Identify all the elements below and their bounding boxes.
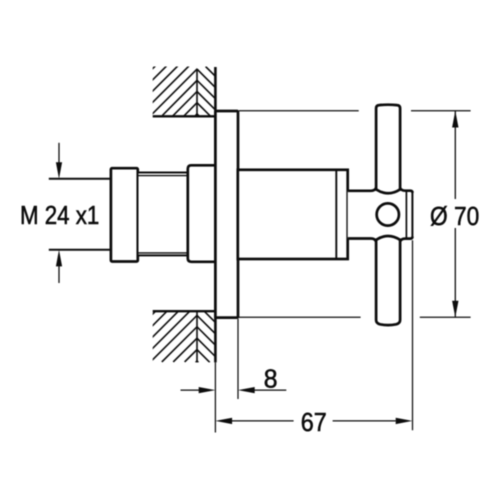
dimension 67 line left — [232, 420, 294, 422]
handle bar (vertical arm) — [376, 105, 400, 325]
union nut — [111, 168, 138, 261]
dimension D70 bottom extension line — [239, 316, 361, 318]
dimension 67 line right — [333, 420, 396, 422]
wall fold line top — [196, 69, 198, 117]
svg-text:Ø 70: Ø 70 — [430, 201, 479, 231]
wall hatch top block — [106, 66, 211, 116]
escutcheon plate — [215, 111, 238, 318]
hub bottom edge right and cap bottom — [400, 237, 412, 242]
thread root line top — [138, 175, 188, 177]
dimension 8 left line and arrow — [181, 389, 200, 391]
thread root line bottom — [138, 252, 188, 254]
dimension M24x1 top arrow — [58, 143, 60, 163]
supply thread stub bottom edge — [49, 249, 111, 251]
svg-text:67: 67 — [301, 407, 327, 437]
hub top intersection arc — [376, 190, 400, 194]
threaded section outline — [138, 173, 188, 256]
wall cut edge bottom — [153, 310, 216, 312]
dimension 8 right line and arrow — [255, 389, 287, 391]
body step line — [335, 170, 337, 259]
hub bottom intersection arc — [376, 236, 400, 240]
D70 bottom arrowhead — [452, 301, 458, 318]
wall face extension line for dims 8 and 67 — [214, 362, 216, 432]
supply thread stub top edge — [49, 178, 111, 180]
wall hatch bottom block — [105, 311, 197, 362]
wall hatch bottom block backslash strip — [197, 311, 215, 362]
hub bottom edge left — [348, 239, 376, 242]
svg-text:8: 8 — [264, 364, 278, 394]
dimension M24x1 bottom arrow — [58, 266, 60, 284]
wall cut edge top — [153, 115, 216, 117]
wall fold line bottom — [196, 311, 198, 362]
D70 top arrowhead — [452, 111, 458, 128]
dimension D70 line — [454, 111, 456, 199]
connector block at wall — [188, 165, 216, 261]
handle screw circle — [377, 203, 399, 225]
handle hub fill — [348, 191, 413, 239]
dimension D70 top extension line — [239, 110, 359, 112]
hub top edge left — [348, 188, 376, 191]
wall hatch top block backslash strip — [197, 67, 215, 117]
cap right edge — [411, 192, 413, 238]
wall face line — [214, 67, 217, 362]
hub top edge right and cap top — [400, 188, 412, 193]
valve body — [238, 170, 348, 259]
plate edge extension line for dim 8 — [237, 319, 239, 399]
svg-text:M 24 x1: M 24 x1 — [20, 200, 99, 230]
cap inner edge — [405, 191, 407, 239]
cap edge extension line for dim 67 — [412, 240, 414, 430]
